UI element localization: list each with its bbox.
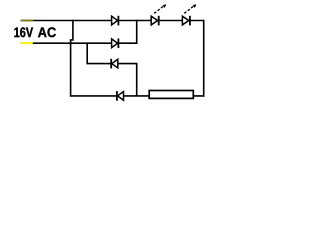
LED LED1 (top rail, pointing right, with arrows): [151, 4, 166, 25]
node bottom lead yellow segment: [21, 42, 33, 44]
diode D4 (bottom rail, pointing left): [117, 91, 124, 101]
resistor R1 (bottom rail): [149, 91, 193, 99]
wire bottom rail: [70, 95, 205, 97]
node top lead yellow segment: [21, 20, 33, 22]
wire right vertical rail: [203, 20, 205, 97]
wire top rail from AC source to right corner: [21, 20, 205, 22]
wire branch from top rail down with crossover jog to bottom rail: [71, 20, 73, 96]
diode D2 (AC bottom lead, pointing right): [112, 39, 119, 49]
wire branch down from bottom lead through D3 row down to bottom rail: [87, 43, 137, 97]
LED LED2 (top rail, pointing right, with arrows): [182, 4, 196, 25]
diode D1 (top rail, pointing right): [112, 16, 119, 26]
wire AC bottom lead to D2 then up to top rail: [21, 20, 137, 43]
source label 16V AC: [14, 27, 55, 37]
diode D3 (middle row, pointing left): [111, 59, 118, 69]
